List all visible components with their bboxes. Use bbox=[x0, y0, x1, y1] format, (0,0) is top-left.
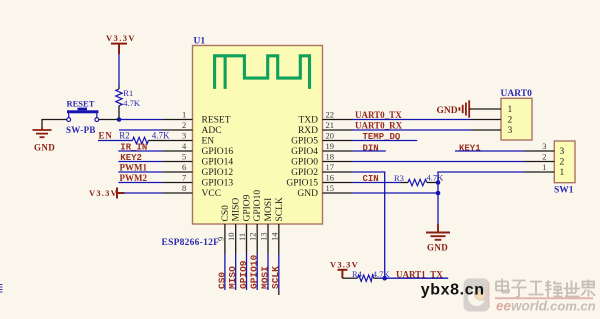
svg-text:R2: R2 bbox=[119, 131, 130, 141]
svg-text:2: 2 bbox=[182, 120, 186, 130]
node UART0_TX bbox=[353, 110, 472, 120]
pin stubs UART0 bbox=[471, 109, 501, 130]
svg-text:RESET: RESET bbox=[67, 99, 95, 109]
svg-text:.com.cn: .com.cn bbox=[547, 298, 596, 313]
watermark logo icon bbox=[464, 279, 490, 312]
wire bbox=[0, 285, 3, 293]
junction bbox=[436, 180, 441, 185]
svg-text:9: 9 bbox=[215, 237, 225, 241]
svg-text:MOSI: MOSI bbox=[264, 198, 274, 222]
node GPIO10 bbox=[249, 254, 260, 290]
pin stubs SW1 bbox=[524, 151, 554, 172]
svg-text:RESET: RESET bbox=[202, 116, 231, 126]
svg-text:SW-PB: SW-PB bbox=[66, 125, 96, 135]
svg-text:UART0_RX: UART0_RX bbox=[355, 120, 403, 130]
antenna bbox=[215, 56, 310, 89]
svg-text:SCLK: SCLK bbox=[275, 197, 285, 221]
svg-text:GPIO15: GPIO15 bbox=[286, 179, 318, 189]
junction bbox=[382, 276, 387, 281]
svg-text:GND: GND bbox=[297, 189, 318, 199]
power V3.3V (pin 8) bbox=[89, 188, 125, 199]
svg-text:GPIO5: GPIO5 bbox=[291, 137, 318, 147]
svg-text:ESP8266-12F: ESP8266-12F bbox=[162, 238, 220, 248]
svg-text:MISO: MISO bbox=[232, 198, 242, 222]
power V3.3V (top) bbox=[106, 33, 136, 54]
node EN bbox=[98, 131, 133, 141]
svg-text:ADC: ADC bbox=[202, 126, 222, 136]
ground GND (left) bbox=[33, 128, 56, 153]
svg-text:GND: GND bbox=[437, 106, 458, 116]
node PWM1 bbox=[118, 162, 162, 172]
svg-text:1: 1 bbox=[542, 162, 546, 172]
U1 left pin names bbox=[202, 116, 234, 200]
svg-text:11: 11 bbox=[237, 233, 247, 241]
junction bbox=[436, 191, 441, 196]
svg-text:18: 18 bbox=[326, 152, 335, 162]
svg-text:13: 13 bbox=[259, 233, 269, 242]
svg-text:R3: R3 bbox=[394, 173, 404, 183]
node TEMP_DQ bbox=[353, 132, 418, 142]
svg-text:V3.3V: V3.3V bbox=[330, 259, 359, 269]
resistor R4 bbox=[342, 269, 390, 281]
U1 pin numbers bottom bbox=[215, 232, 279, 241]
svg-text:EN: EN bbox=[99, 131, 113, 141]
power V3.3V (bottom) bbox=[330, 259, 359, 278]
node UART0_RX bbox=[353, 120, 472, 130]
U1 pin stubs bottom bbox=[225, 224, 279, 254]
svg-text:MOSI: MOSI bbox=[259, 266, 270, 289]
svg-text:R1: R1 bbox=[123, 88, 133, 98]
svg-text:1: 1 bbox=[508, 105, 513, 115]
svg-text:3: 3 bbox=[542, 141, 546, 151]
svg-text:ee: ee bbox=[496, 298, 512, 313]
svg-text:2: 2 bbox=[542, 152, 546, 162]
wire bbox=[118, 54, 120, 86]
svg-text:4.7K: 4.7K bbox=[373, 269, 391, 279]
svg-text:4.7K: 4.7K bbox=[427, 172, 445, 182]
wire bbox=[378, 277, 385, 279]
node SCLK bbox=[270, 254, 281, 295]
wire pin2 bbox=[119, 129, 163, 131]
connector UART0 bbox=[501, 89, 533, 140]
node KEY1 bbox=[455, 143, 524, 153]
node MISO bbox=[227, 254, 238, 290]
svg-text:GPIO2: GPIO2 bbox=[291, 168, 318, 178]
svg-text:4.7K: 4.7K bbox=[123, 98, 141, 108]
node CIN bbox=[353, 174, 402, 184]
node IR_IN bbox=[118, 142, 162, 152]
svg-text:ybx8.cn: ybx8.cn bbox=[421, 282, 485, 299]
wire bbox=[99, 119, 118, 121]
svg-text:GND: GND bbox=[427, 243, 448, 253]
svg-text:EN: EN bbox=[202, 137, 215, 147]
svg-text:12: 12 bbox=[248, 233, 258, 242]
svg-text:GPIO0: GPIO0 bbox=[291, 158, 318, 168]
pin numbers SW1 bbox=[542, 141, 546, 172]
svg-text:22: 22 bbox=[326, 110, 335, 120]
U1 pin stubs right bbox=[323, 120, 353, 194]
svg-text:GPIO10: GPIO10 bbox=[253, 190, 263, 222]
svg-text:UART0_TX: UART0_TX bbox=[355, 110, 402, 120]
svg-text:GND: GND bbox=[34, 143, 55, 153]
svg-text:16: 16 bbox=[326, 173, 335, 183]
svg-text:15: 15 bbox=[326, 183, 335, 193]
node UART1_TX bbox=[385, 269, 449, 279]
svg-text:17: 17 bbox=[326, 162, 335, 172]
svg-text:U1: U1 bbox=[194, 37, 206, 47]
U1 pin numbers right bbox=[326, 110, 335, 194]
svg-text:5: 5 bbox=[182, 152, 186, 162]
wire pin18 to SW1 bbox=[353, 161, 525, 163]
svg-text:VCC: VCC bbox=[202, 189, 222, 199]
connector SW1 bbox=[554, 141, 575, 196]
node KEY2 bbox=[118, 153, 162, 163]
IC U1 ESP8266-12F module bbox=[193, 37, 323, 225]
svg-text:1: 1 bbox=[182, 110, 186, 120]
node GPIO9 bbox=[238, 254, 249, 290]
svg-text:6: 6 bbox=[182, 162, 186, 172]
U1 pin stubs left bbox=[163, 120, 193, 194]
ground GND (right) bbox=[426, 224, 450, 253]
U1 bottom pin names bbox=[221, 190, 285, 222]
wire bbox=[42, 120, 67, 128]
svg-text:GPIO9: GPIO9 bbox=[238, 260, 249, 289]
svg-text:TXD: TXD bbox=[298, 116, 318, 126]
svg-text:2: 2 bbox=[560, 158, 565, 168]
svg-text:19: 19 bbox=[326, 141, 335, 151]
svg-text:GPIO14: GPIO14 bbox=[202, 158, 234, 168]
svg-text:SCLK: SCLK bbox=[270, 266, 281, 289]
power ground GND (UART0 pin1) bbox=[437, 100, 472, 117]
watermark eeworld.com.cn bbox=[496, 298, 596, 313]
node DIN bbox=[353, 143, 386, 153]
node CS0 bbox=[216, 254, 227, 290]
svg-text:CS0: CS0 bbox=[221, 205, 231, 222]
svg-text:4: 4 bbox=[182, 141, 187, 151]
svg-text:8: 8 bbox=[182, 183, 186, 193]
svg-text:1: 1 bbox=[560, 168, 565, 178]
svg-text:14: 14 bbox=[269, 232, 279, 241]
svg-text:V3.3V: V3.3V bbox=[106, 33, 136, 43]
wire pin8 bbox=[125, 192, 163, 194]
svg-text:MISO: MISO bbox=[227, 266, 238, 289]
svg-text:SW1: SW1 bbox=[554, 186, 574, 196]
wire SW1 pin1 bbox=[438, 172, 524, 224]
svg-text:3: 3 bbox=[560, 147, 565, 157]
U1 right pin names bbox=[286, 116, 318, 200]
watermark CJK text bbox=[496, 279, 595, 298]
svg-text:2: 2 bbox=[508, 116, 513, 126]
svg-text:7: 7 bbox=[182, 173, 186, 183]
wire pin1 bbox=[119, 119, 163, 121]
svg-text:20: 20 bbox=[326, 131, 335, 141]
junction bbox=[117, 117, 122, 122]
svg-text:CS0: CS0 bbox=[216, 272, 227, 289]
svg-text:RXD: RXD bbox=[298, 126, 318, 136]
switch SW-PB RESET bbox=[66, 99, 99, 136]
resistor R3 bbox=[394, 172, 444, 185]
svg-text:GPIO16: GPIO16 bbox=[202, 147, 234, 157]
svg-text:GPIO12: GPIO12 bbox=[202, 168, 234, 178]
resistor R1 bbox=[116, 86, 141, 120]
wire pin15 bbox=[353, 192, 439, 194]
svg-text:GPIO13: GPIO13 bbox=[202, 179, 234, 189]
svg-text:GPIO9: GPIO9 bbox=[243, 194, 253, 221]
svg-text:4.7K: 4.7K bbox=[152, 131, 170, 141]
svg-text:DIN: DIN bbox=[363, 143, 379, 153]
svg-text:3: 3 bbox=[182, 131, 186, 141]
svg-text:GPIO4: GPIO4 bbox=[291, 147, 318, 157]
svg-text:world: world bbox=[511, 298, 548, 313]
svg-text:10: 10 bbox=[226, 233, 236, 242]
svg-text:UART0: UART0 bbox=[501, 89, 533, 99]
svg-text:KEY1: KEY1 bbox=[459, 143, 481, 153]
svg-text:GPIO10: GPIO10 bbox=[249, 254, 260, 289]
svg-text:PWM2: PWM2 bbox=[120, 173, 148, 183]
wire pin17 bbox=[353, 172, 385, 278]
svg-text:21: 21 bbox=[326, 120, 335, 130]
svg-text:3: 3 bbox=[508, 126, 513, 136]
resistor R2 bbox=[119, 131, 170, 144]
svg-text:V3.3V: V3.3V bbox=[89, 188, 118, 198]
svg-text:PWM1: PWM1 bbox=[120, 162, 148, 172]
node MOSI bbox=[259, 254, 270, 290]
watermark underline bbox=[495, 297, 593, 299]
U1 pin numbers left bbox=[182, 110, 187, 194]
node PWM2 bbox=[118, 173, 162, 183]
